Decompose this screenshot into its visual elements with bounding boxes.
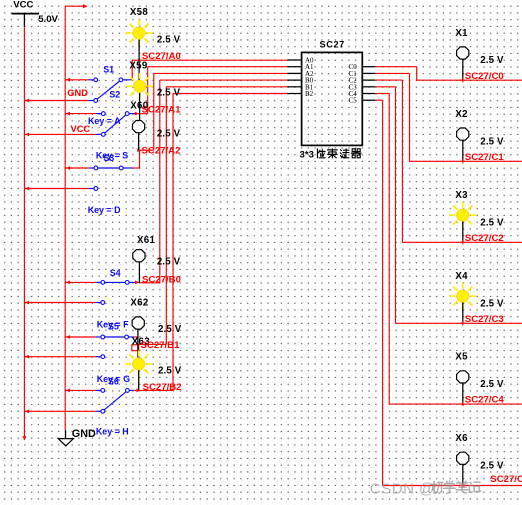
chip caption CJK 位乘法器 [317,149,361,158]
wire net SC27/C2 routing [375,80,522,242]
svg-text:X59: X59 [129,61,147,72]
svg-text:S4: S4 [110,268,121,278]
switch S6 (Key=H) [24,389,133,414]
label S1 [103,65,114,75]
net label SC27/C0 [465,71,504,82]
svg-text:2.5 V: 2.5 V [480,217,504,228]
svg-text:S1: S1 [103,65,114,75]
svg-text:X2: X2 [455,109,467,120]
svg-text:5.0V: 5.0V [38,14,58,25]
wire node B2 riser [134,94,287,393]
lamp X4 (lit) [449,271,504,326]
wire node B0 riser [135,80,287,284]
svg-text:SC27/C3: SC27/C3 [465,314,504,325]
net label SC27/C2 [465,233,504,244]
net label SC27/A1 [142,104,182,115]
lamp X5 (off) [455,352,504,407]
svg-text:2.5 V: 2.5 V [480,55,504,66]
watermark CSDN [370,480,481,497]
wire net SC27/C1 routing [375,73,522,161]
svg-text:GND: GND [67,88,88,98]
wire S3 output up to node A2 [133,73,287,168]
svg-text:C5: C5 [349,97,358,105]
wire net SC27/C4 routing [375,94,522,405]
lamp X61 (off) [133,235,181,283]
svg-text:2.5 V: 2.5 V [158,324,182,335]
svg-text:CSDN @: CSDN @ [370,480,435,497]
svg-text:S2: S2 [109,89,120,99]
ground symbol [58,428,96,446]
switch S2 (Key=S) [24,112,135,137]
net label GND (red) [67,88,88,98]
svg-text:3*3: 3*3 [300,149,314,160]
lamp X60 (off) [130,101,180,151]
svg-text:SC27/C2: SC27/C2 [465,233,504,244]
net label SC27/C4 [465,395,505,406]
net label SC27/C5 [490,474,522,485]
svg-text:SC27/C1: SC27/C1 [465,152,505,163]
power source VCC 5.0V [12,0,59,27]
svg-text:X61: X61 [137,235,155,246]
svg-text:X58: X58 [130,7,148,18]
wire net SC27/A0 to chip pin A0 [132,59,288,61]
svg-text:2.5 V: 2.5 V [158,366,182,377]
net label SC27/B1 [141,340,181,351]
svg-text:S6: S6 [108,376,119,386]
svg-text:X3: X3 [455,190,468,201]
label Key = D [88,205,121,215]
svg-text:SC27/B1: SC27/B1 [141,340,181,351]
net label SC27/C3 [465,314,504,325]
net label SC27/C1 [465,152,505,163]
net label SC27/B2 [143,382,182,393]
svg-text:2.5 V: 2.5 V [157,257,181,268]
label Key = H [96,427,129,437]
label S4 [110,268,121,278]
lamp X1 (off) [455,28,504,83]
svg-text:Key = H: Key = H [96,427,129,437]
svg-text:VCC: VCC [71,124,91,134]
wire net SC27/C3 routing [375,87,522,323]
svg-text:2.5 V: 2.5 V [480,379,504,390]
junction node A0 [137,58,141,62]
switch S1 (Key=A) [24,78,131,103]
net label SC27/A2 [142,145,181,156]
label Key = G and S6 [97,374,130,386]
svg-text:X62: X62 [130,298,148,309]
lamp X63 (lit) [125,351,181,391]
switch S3 (Key=D) [24,166,133,190]
svg-text:SC27/B2: SC27/B2 [143,382,182,393]
net label SC27/A0 [142,51,181,62]
svg-text:S3: S3 [103,153,114,163]
wire rail A (from VCC symbol down) [22,27,26,440]
label Key = F and S5 [97,320,129,332]
label Key = A [88,116,121,126]
svg-text:X1: X1 [455,28,468,39]
svg-text:2.5 V: 2.5 V [480,461,504,472]
svg-text:X5: X5 [455,352,468,363]
svg-text:2.5 V: 2.5 V [480,298,504,309]
svg-text:SC27/C4: SC27/C4 [465,395,505,406]
svg-text:2.5 V: 2.5 V [157,128,181,139]
lamp X3 (lit) [449,190,504,245]
lamp X6 (off) [455,433,504,488]
lamp X58 (lit) [126,7,181,80]
svg-text:X4: X4 [455,271,468,282]
svg-text:SC27/A0: SC27/A0 [142,51,181,62]
label Key = S and S3 [96,151,128,164]
svg-text:X6: X6 [455,433,468,444]
net label VCC (red) [71,124,91,134]
wire S1 output up to net A0 [130,60,133,80]
svg-text:GND: GND [72,428,96,440]
lamp X62 (off) [130,298,181,358]
label S2 [109,89,120,99]
wire net SC27/C0 routing [375,67,522,81]
switch S4 (Key=F) [24,281,136,305]
svg-text:SC27/C5: SC27/C5 [490,474,522,485]
svg-text:Key = A: Key = A [88,116,121,126]
wire node B1 riser + red box [132,87,287,351]
svg-text:Key = D: Key = D [88,205,121,215]
net label SC27/B0 [142,275,181,286]
label X63 [132,337,150,348]
svg-text:B2: B2 [305,90,314,98]
svg-text:2.5 V: 2.5 V [157,88,181,99]
svg-text:S5: S5 [108,322,119,332]
lamp X2 (off) [455,109,504,164]
svg-text:SC27/B0: SC27/B0 [142,275,181,286]
wire node A1 to vertical riser [135,67,287,116]
svg-text:2.5 V: 2.5 V [157,34,181,45]
lamp X59 (lit) [126,61,180,121]
svg-text:SC27/A2: SC27/A2 [142,145,181,156]
svg-text:VCC: VCC [13,0,33,11]
svg-text:2.5 V: 2.5 V [480,136,504,147]
svg-text:X60: X60 [130,101,148,112]
IC U-SC27 3*3 multiplier [287,40,375,161]
wire net SC27/C5 routing [375,100,522,485]
switch S5 (Key=G) [24,335,134,359]
wire rail B with top stub arrow [65,4,87,430]
svg-text:SC27: SC27 [320,40,345,50]
svg-text:SC27/C0: SC27/C0 [465,71,504,82]
